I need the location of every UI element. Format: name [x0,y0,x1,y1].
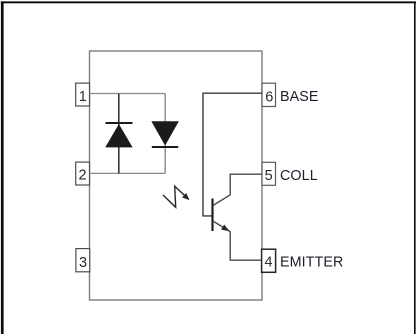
wire pin1 to LED top rail [90,93,166,95]
svg-text:3: 3 [79,255,87,271]
wire pin2 to LED bottom rail [90,172,166,174]
pin 1 [76,83,90,106]
LED D1 (left diode, cathode bar on top, triangle pointing up) [106,123,133,147]
phototransistor Q1 collector + wire to pin 5 [213,174,262,205]
svg-text:BASE: BASE [280,89,319,105]
svg-text:COLL: COLL [280,168,318,184]
svg-text:6: 6 [265,89,273,105]
optocoupler package outline [90,51,263,300]
pin 6 [262,83,276,106]
svg-text:EMITTER: EMITTER [280,254,343,270]
wire base to pin 6 [203,93,262,216]
svg-text:1: 1 [79,89,87,105]
LED D2 lead (right vertical) [164,94,166,174]
LED D2 (right diode, triangle pointing down, cathode bar below) [152,122,178,147]
svg-text:2: 2 [79,167,87,183]
pin 3 [76,249,90,272]
light emission arrow (photon zigzag) [163,186,190,207]
LED D1 lead (left vertical) [118,94,120,174]
pin 2 [76,162,90,185]
phototransistor Q1 emitter + wire to pin 4 [213,221,262,260]
phototransistor Q1 base bar [211,199,213,232]
svg-text:5: 5 [265,168,273,184]
pin 5 [262,162,276,185]
pin 4 [262,249,276,272]
svg-text:4: 4 [264,255,272,271]
